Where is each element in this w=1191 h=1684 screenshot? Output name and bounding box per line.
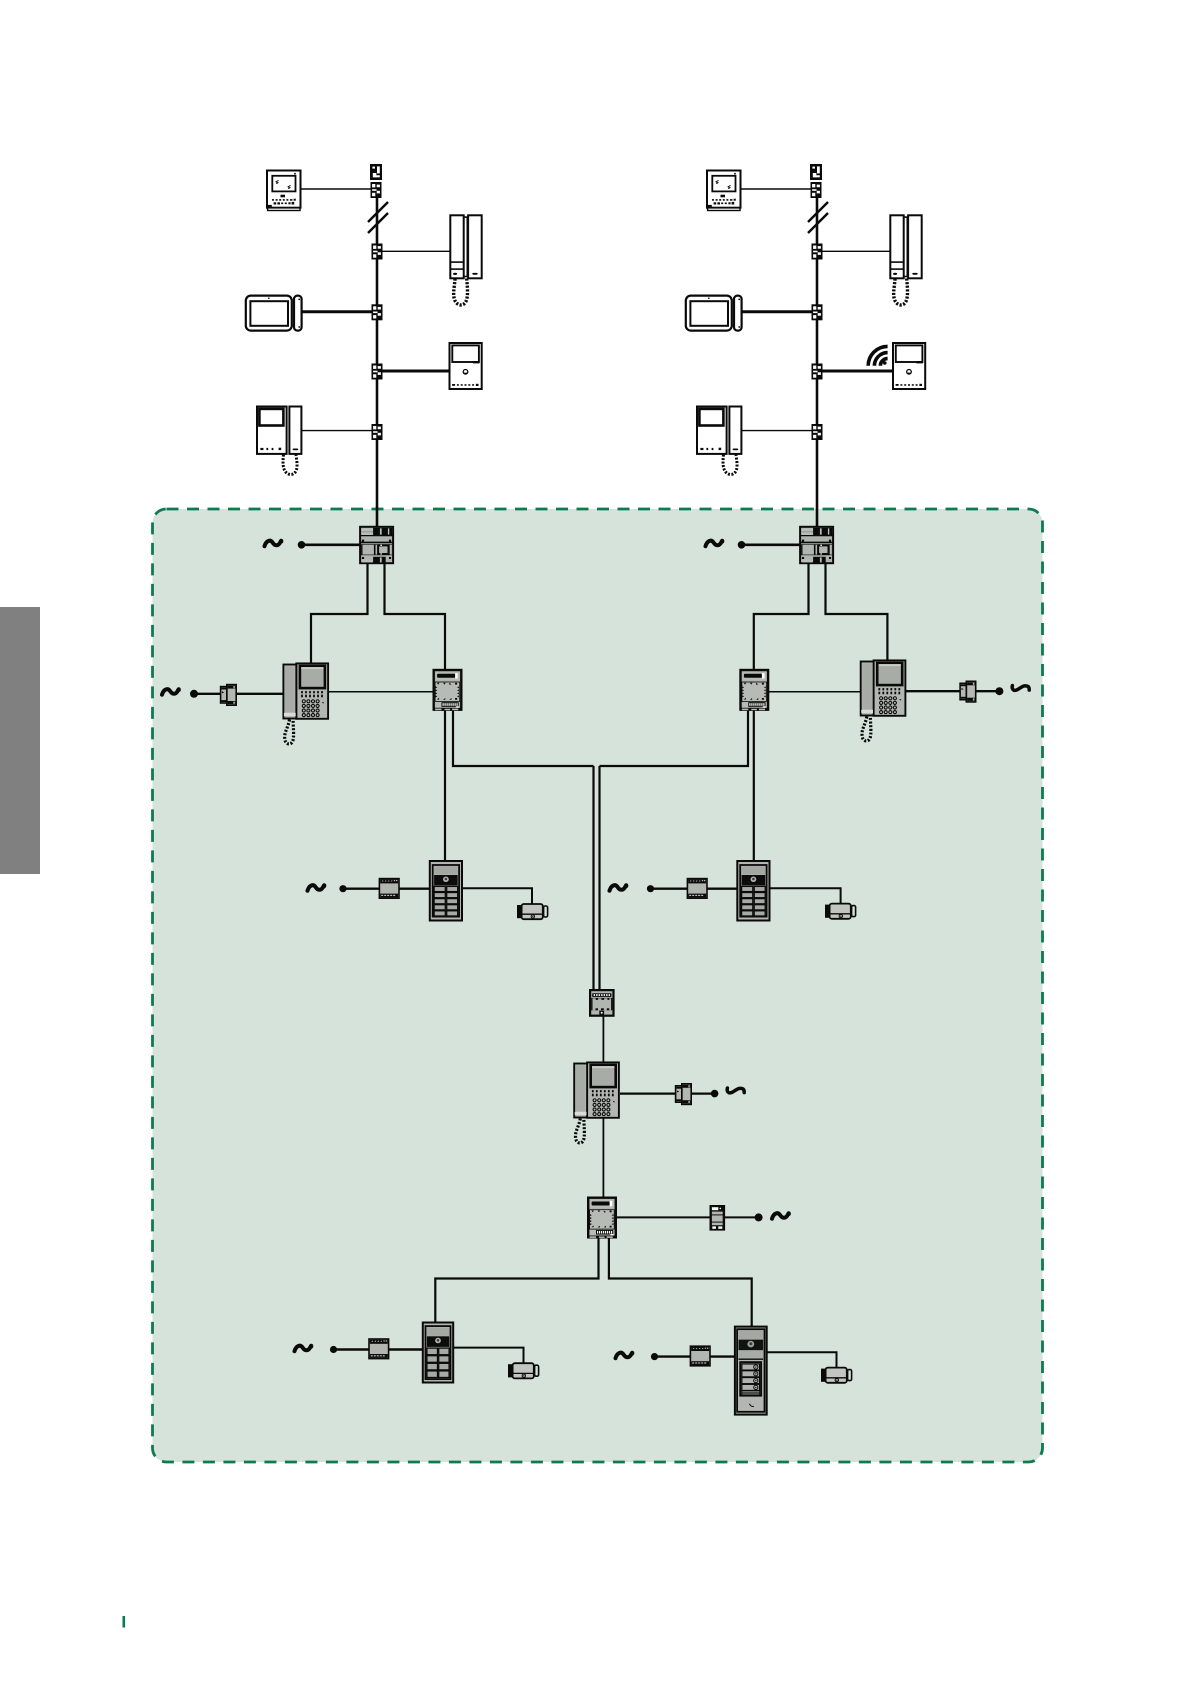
wire PSU-L left output to phone-L [311,564,368,664]
distributor R3 [812,364,823,380]
distributor R1 [812,244,823,260]
mains tilde PSU-L [265,541,282,546]
distributor L2 [372,304,383,320]
wire handset1R to bus [823,250,892,252]
wire: right bus top segment [816,197,819,244]
wire interface-L down to center [453,711,594,767]
wire: left bus segment 3 [376,319,379,364]
door lock BL [508,1363,539,1378]
power supply PSU-L [360,527,393,563]
wire interface-R to entrance panel ER [753,711,755,861]
wire PSU-R right output to phone-R [826,564,888,660]
wire interface-C left leg to panel BL [435,1239,598,1323]
mains dot C2 [755,1213,763,1221]
wifi monitor M2R [893,343,925,389]
wire tabletL to bus [300,310,372,313]
wire module C2 to dot [725,1216,758,1218]
wire monitor2L to bus [383,370,451,373]
mains tilde panel ER [610,885,627,890]
mains tilde panel EL [308,885,325,890]
wire interface-L to entrance panel EL [444,711,446,861]
distributor L0 [371,182,382,198]
green dashed system area [153,509,1043,1462]
concierge phone PHR [861,660,906,741]
wire PSU-L right output to interface-L [385,564,446,670]
distributor L1 [372,244,383,260]
distributor R2 [812,304,823,320]
mains tildeR phone-C [727,1088,744,1093]
tablet monitor T1L [246,296,302,331]
wire panel BL to lock [453,1348,524,1363]
wire module-L to phone-L [237,693,283,695]
wire module-C to dot [692,1092,715,1094]
mains dot phone-L [190,690,198,698]
mains tilde panel BR [616,1353,633,1358]
wire psu BL to panel BL [389,1348,423,1350]
door lock BR [821,1368,852,1383]
exchanger module XC [590,990,613,1016]
wire tabletR to bus [740,310,812,313]
monitor with handset M3R [697,407,741,475]
distributor L4 [372,424,383,440]
mains dot phone-C [711,1090,719,1098]
line terminator right [810,164,822,180]
break symbol right bus [808,202,828,233]
wire interface-R down to center [600,711,749,767]
wire: left bus break segment [376,258,379,305]
wire interface-R to phone-R [769,691,861,693]
wire monitor1L to bus [300,188,371,190]
wire monitor2R to bus [823,370,894,373]
concierge phone PHC [574,1062,619,1143]
tablet monitor T1R [686,296,742,331]
mains tilde phone-L [162,689,179,694]
video monitor M1L [267,171,301,211]
mini psu BL [369,1339,389,1359]
door lock EL [517,904,548,919]
mains dot PSU-L [298,541,306,549]
mains dot panel EL [339,885,346,892]
distributor L3 [372,364,383,380]
wire dot to module-L [194,693,221,695]
wire phone-L to interface-L [329,691,433,693]
mains dot panel BL [330,1346,337,1353]
wire psu ER to panel ER [707,888,737,890]
wire phone-C to lower interface [602,1119,604,1199]
small module MC [676,1084,692,1105]
footer page tick [123,1616,126,1628]
wire monitor1R to bus [740,188,811,190]
wire dot to psu ER [651,888,688,890]
interface module IFL [433,670,461,711]
mains dot panel BR [651,1353,658,1360]
wire panel EL to lock [463,888,532,904]
wire monitor3L to bus [301,430,372,432]
wifi arcs [868,346,887,365]
wire phone-R to module-R [906,690,960,692]
wire psu BR to panel BR [710,1355,735,1357]
wire dot to psu BR [655,1355,691,1357]
mains dot panel ER [647,885,654,892]
break symbol left bus [368,202,388,233]
mains dot phone-R [995,687,1003,695]
wire center pair right [598,766,600,989]
wire: left bus segment 5 into green area [376,439,379,527]
wire: right bus segment 4 [816,379,819,424]
wire center pair left [592,766,594,989]
entrance panel EL [430,861,462,921]
lower interface IFC [588,1198,616,1239]
wire: left bus segment 4 [376,379,379,424]
mains tilde panel BL [295,1346,312,1351]
wire panel BR to lock [767,1352,837,1367]
wire: right bus segment 5 into green area [816,439,819,527]
wire exchanger to phone-C [602,1016,604,1064]
wire: right bus break segment [816,258,819,305]
entrance panel ER [737,861,769,921]
mini psu ER [687,879,707,899]
wire dot to PSU-R [742,543,801,546]
entrance panel BR (sfera) [735,1327,767,1415]
small module MR [960,681,976,702]
wire psu EL to panel EL [399,888,429,890]
wire dot to psu BL [334,1348,370,1350]
mains tildeR phone-R [1012,686,1029,691]
wire PSU-R left output to interface-R [754,564,809,670]
mini psu EL [379,879,399,899]
entrance panel BL [423,1323,453,1383]
wire handset1L to bus [383,250,452,252]
mini psu BR [690,1346,710,1366]
audio handset H1R [890,215,921,305]
door lock ER [825,904,856,919]
wire interface-C right leg to panel BR [609,1239,752,1327]
wire panel ER to lock [771,888,841,903]
audio handset H1L [450,215,481,305]
video monitor M1R [707,171,741,211]
wire dot to PSU-L [302,543,361,546]
mains tilde C2 [772,1213,789,1218]
concierge phone PHL [283,663,328,744]
wire interface-C to module C2 [617,1216,710,1218]
din module C2 [710,1206,724,1230]
mains tilde PSU-R [706,541,723,546]
mains dot PSU-R [738,541,746,549]
power supply PSU-R [800,527,833,563]
wire module-R to dot [976,690,999,692]
distributor R4 [812,424,823,440]
wire: left bus top segment [376,197,379,244]
wire: right bus segment 3 [816,319,819,364]
wire dot to psu EL [343,888,379,890]
wire phone-C to module-C [620,1092,676,1094]
line terminator left [370,164,382,180]
left margin gray block [0,607,40,874]
monitor with handset M3L [257,407,301,475]
wire monitor3R to bus [741,430,812,432]
compact monitor M2L [450,343,482,389]
distributor R0 [811,182,822,198]
interface module IFR [740,670,768,711]
small module ML [221,685,237,706]
